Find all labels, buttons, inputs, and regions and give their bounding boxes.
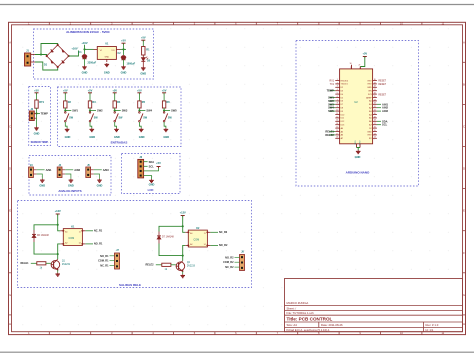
- svg-text:GND: GND: [65, 135, 71, 139]
- wire: [91, 174, 100, 179]
- svg-text:NO_R2: NO_R2: [219, 244, 228, 247]
- relay K2: [185, 227, 210, 247]
- ground: [97, 179, 103, 188]
- capacitor C2: [117, 52, 135, 66]
- wire: [84, 49, 94, 51]
- label SW4: [328, 106, 335, 110]
- note title SENSOR TEMP.: [31, 141, 49, 144]
- wire: [35, 62, 58, 70]
- svg-text:+12V: +12V: [180, 211, 186, 215]
- svg-text:17: 17: [336, 133, 338, 135]
- wire: [64, 108, 66, 111]
- svg-text:11: 11: [336, 113, 338, 115]
- connector J4: [57, 164, 62, 178]
- svg-text:SW2: SW2: [97, 109, 103, 113]
- svg-text:Date: 2011-08-26: Date: 2011-08-26: [321, 323, 343, 327]
- svg-text:21: 21: [374, 110, 376, 112]
- svg-text:26: 26: [374, 93, 376, 95]
- svg-text:9: 9: [337, 106, 338, 108]
- svg-text:E: E: [9, 209, 11, 213]
- resistor R6: [162, 101, 170, 108]
- section box sensor temp: [29, 87, 51, 146]
- svg-text:KiCad E.D.A. eeschema (5.1.10: KiCad E.D.A. eeschema (5.1.10)-1: [287, 328, 331, 332]
- label A/N1: [34, 168, 52, 172]
- svg-text:GND: GND: [355, 140, 357, 145]
- svg-text:GND: GND: [97, 184, 103, 188]
- wire: [46, 262, 51, 264]
- svg-text:GND: GND: [34, 132, 40, 136]
- svg-text:SW4: SW4: [146, 109, 152, 113]
- svg-text:Title: PCB CONTROL: Title: PCB CONTROL: [287, 317, 333, 322]
- svg-text:D7 1N4148: D7 1N4148: [162, 237, 174, 239]
- svg-text:14: 14: [336, 123, 338, 125]
- connector J5: [86, 164, 91, 178]
- svg-text:2N2219: 2N2219: [187, 266, 196, 268]
- svg-text:Size: A4: Size: A4: [287, 323, 298, 327]
- svg-text:14: 14: [204, 244, 206, 246]
- svg-text:12: 12: [336, 116, 338, 118]
- wire: [164, 122, 166, 128]
- label SW1: [65, 109, 78, 113]
- ground: [55, 273, 60, 277]
- svg-text:H: H: [463, 322, 465, 326]
- svg-text:NO_R1: NO_R1: [100, 255, 109, 258]
- svg-text:GND: GND: [139, 135, 145, 139]
- svg-text:B: B: [463, 82, 465, 86]
- switch SW4: [139, 112, 148, 122]
- svg-text:+5V: +5V: [137, 88, 142, 92]
- svg-text:A2: A2: [190, 243, 192, 246]
- svg-text:A/N2: A/N2: [382, 106, 388, 110]
- ground: [82, 66, 88, 75]
- wire: [182, 272, 184, 275]
- global label RESET: [378, 84, 386, 86]
- svg-text:GND: GND: [82, 71, 88, 75]
- resistor R1: [142, 47, 151, 56]
- svg-text:COM: COM: [194, 239, 200, 242]
- wire: [62, 174, 71, 179]
- svg-text:SCL: SCL: [149, 164, 155, 168]
- svg-text:+5V: +5V: [141, 36, 146, 40]
- wire: [31, 55, 35, 63]
- svg-text:SALIDAS RELE: SALIDAS RELE: [119, 283, 141, 287]
- wire: [57, 270, 59, 273]
- wire: [41, 44, 58, 55]
- resistor R4: [113, 101, 121, 108]
- wire: [159, 226, 183, 231]
- svg-text:RXD/D0: RXD/D0: [341, 80, 349, 82]
- svg-text:RESET: RESET: [378, 94, 386, 96]
- resistor R5: [138, 101, 146, 108]
- svg-text:+16V: +16V: [71, 47, 77, 51]
- wire: [121, 49, 127, 51]
- svg-text:File: TUTORIAL 1.sch: File: TUTORIAL 1.sch: [287, 311, 315, 315]
- wire: [90, 122, 92, 128]
- svg-text:GND: GND: [355, 155, 361, 159]
- svg-text:E: E: [463, 209, 465, 213]
- svg-text:8: 8: [337, 103, 338, 105]
- ground: [121, 66, 127, 75]
- power +5V: [121, 39, 126, 50]
- wire: [139, 108, 141, 111]
- power +5V: [162, 88, 167, 101]
- svg-text:3: 3: [337, 86, 338, 88]
- svg-text:GND: GND: [140, 72, 146, 76]
- svg-text:SW1: SW1: [328, 96, 334, 100]
- connector J7: [115, 249, 120, 269]
- svg-text:AREF: AREF: [366, 96, 372, 99]
- svg-text:D: D: [463, 167, 465, 171]
- global label RESET: [378, 94, 386, 96]
- svg-text:ARDUINO NANO: ARDUINO NANO: [346, 170, 370, 174]
- label SW2: [90, 109, 103, 113]
- svg-text:30: 30: [374, 79, 376, 81]
- wire: [35, 54, 47, 56]
- svg-text:17: 17: [374, 123, 376, 125]
- label NC_R1: [85, 229, 102, 232]
- svg-text:LCD: LCD: [148, 188, 154, 192]
- svg-text:TEMP: TEMP: [41, 112, 48, 116]
- label A/N1: [377, 102, 389, 106]
- svg-text:+12V: +12V: [55, 209, 61, 213]
- capacitor C1: [78, 51, 96, 65]
- IC U2 pins: [335, 79, 377, 140]
- label RELE1: [21, 262, 37, 265]
- svg-text:NC_R1: NC_R1: [94, 229, 103, 232]
- svg-text:13: 13: [336, 120, 338, 122]
- note title ANALOG INPUTS: [58, 189, 81, 193]
- title block frame: [285, 279, 463, 332]
- svg-text:TEMP: TEMP: [327, 89, 334, 93]
- svg-text:VIN: VIN: [368, 91, 372, 93]
- svg-text:22: 22: [374, 106, 376, 108]
- svg-text:GND: GND: [68, 184, 74, 188]
- ground: [139, 128, 145, 139]
- wire: [36, 108, 38, 114]
- svg-text:GND: GND: [367, 131, 372, 133]
- regulator U1: [94, 43, 121, 63]
- svg-text:28: 28: [374, 86, 376, 88]
- label SW1: [328, 96, 335, 100]
- wire: [58, 244, 61, 259]
- svg-text:SW5: SW5: [328, 109, 334, 113]
- resistor RT1: [35, 100, 45, 108]
- svg-text:GND: GND: [360, 140, 362, 145]
- svg-text:A/N3: A/N3: [382, 109, 388, 113]
- wire: [144, 176, 152, 180]
- svg-text:RELE2: RELE2: [146, 264, 155, 267]
- wire: [115, 122, 117, 128]
- label A/N3: [377, 109, 389, 113]
- svg-text:U2: U2: [354, 100, 358, 104]
- svg-text:A/N2: A/N2: [74, 168, 80, 172]
- transistor Q2: [176, 261, 196, 272]
- svg-text:TXD/D1: TXD/D1: [341, 84, 349, 86]
- svg-text:RELE1: RELE1: [21, 262, 30, 265]
- svg-text:A1: A1: [65, 231, 67, 234]
- note title ENTRADAS: [111, 141, 128, 145]
- label NC_R1: [100, 265, 114, 268]
- ground: [104, 63, 110, 75]
- switch SW3: [114, 112, 123, 122]
- svg-text:2200uF: 2200uF: [88, 62, 97, 65]
- svg-text:+5V: +5V: [63, 88, 68, 92]
- svg-text:SENSOR TEMP.: SENSOR TEMP.: [31, 141, 49, 144]
- svg-text:MARCO ZUNIGA: MARCO ZUNIGA: [287, 301, 309, 305]
- power +12V: [55, 209, 61, 226]
- svg-text:VO: VO: [111, 50, 114, 52]
- svg-text:24: 24: [374, 99, 376, 101]
- wire: [58, 225, 61, 231]
- svg-text:GND: GND: [39, 184, 45, 188]
- label SW3: [328, 102, 335, 106]
- svg-text:20: 20: [374, 113, 376, 115]
- svg-text:GND: GND: [114, 135, 120, 139]
- resistor R8: [162, 263, 171, 271]
- label SW4: [139, 109, 152, 113]
- svg-text:16: 16: [374, 127, 376, 129]
- svg-text:SW3: SW3: [122, 109, 128, 113]
- global label RESET: [378, 81, 386, 83]
- ground: [89, 128, 95, 139]
- connector J8: [240, 251, 245, 271]
- label NO_R2: [225, 256, 239, 259]
- resistor R7: [37, 262, 46, 270]
- wire: [142, 55, 144, 58]
- svg-text:RELE1: RELE1: [325, 130, 334, 134]
- power +5V: [141, 36, 146, 47]
- diode D6: [32, 230, 49, 242]
- wire: [123, 60, 125, 66]
- svg-text:GND: GND: [163, 135, 169, 139]
- IC bottom pins: [355, 140, 362, 148]
- svg-text:SW4: SW4: [328, 106, 334, 110]
- wire: [139, 122, 141, 128]
- svg-text:+5V: +5V: [112, 88, 117, 92]
- svg-text:D: D: [9, 167, 11, 171]
- svg-text:2N2219: 2N2219: [62, 264, 71, 266]
- label SW5: [328, 109, 335, 113]
- power +5V: [112, 88, 117, 101]
- connector J1: [25, 50, 31, 66]
- svg-text:7: 7: [337, 99, 338, 101]
- ground: [163, 128, 169, 139]
- section box entradas: [58, 87, 182, 147]
- svg-text:SDA: SDA: [149, 160, 155, 164]
- section box salidas rele: [18, 201, 252, 288]
- svg-text:RELE2: RELE2: [325, 133, 334, 137]
- ground: [140, 67, 146, 76]
- ground: [180, 274, 185, 278]
- svg-text:C: C: [463, 125, 465, 129]
- note title ARDUINO NANO: [346, 170, 370, 174]
- svg-text:SW3: SW3: [328, 102, 334, 106]
- wire: [163, 108, 165, 111]
- svg-text:+5V: +5V: [156, 161, 161, 165]
- label SCL: [377, 123, 388, 127]
- svg-text:A/N1: A/N1: [46, 168, 52, 172]
- label SW3: [115, 109, 128, 113]
- svg-text:15: 15: [336, 127, 338, 129]
- svg-text:SW5: SW5: [171, 109, 177, 113]
- svg-text:ALIMENTACION 24VAC - 5VDC: ALIMENTACION 24VAC - 5VDC: [66, 30, 111, 34]
- label A/N2: [377, 106, 389, 110]
- svg-text:Sheet: /: Sheet: /: [287, 306, 297, 310]
- svg-text:SW2: SW2: [328, 99, 334, 103]
- svg-text:+16V: +16V: [81, 41, 87, 45]
- svg-text:ANALOG INPUTS: ANALOG INPUTS: [58, 189, 81, 193]
- power +5V: [88, 88, 93, 101]
- svg-text:13: 13: [374, 137, 376, 139]
- wire: [69, 51, 79, 57]
- label RELE1: [325, 130, 335, 134]
- wire: [65, 122, 67, 128]
- title block text: [287, 301, 439, 332]
- svg-text:16: 16: [336, 130, 338, 132]
- connector J2: [29, 108, 36, 121]
- svg-text:H: H: [9, 322, 11, 326]
- svg-text:2: 2: [337, 82, 338, 84]
- wire: [84, 59, 86, 66]
- wire: [34, 242, 59, 255]
- svg-text:NC_R2: NC_R2: [225, 266, 234, 269]
- svg-text:NO_R1: NO_R1: [94, 243, 103, 246]
- svg-text:RESET: RESET: [378, 84, 386, 86]
- svg-text:30: 30: [350, 63, 352, 65]
- power +12V: [180, 211, 186, 228]
- switch SW5: [163, 112, 172, 122]
- bridge rectifier D1: [44, 44, 70, 68]
- global label TX1: [330, 84, 335, 86]
- switch SW2: [89, 112, 98, 122]
- svg-text:NC_R1: NC_R1: [100, 265, 109, 268]
- resistor R3: [88, 101, 96, 108]
- ground: [149, 179, 155, 186]
- wire: [34, 174, 43, 179]
- label NC_R2: [210, 231, 227, 234]
- label TEMP: [37, 112, 49, 116]
- svg-text:+5V: +5V: [362, 52, 367, 56]
- label SW2: [328, 99, 335, 103]
- svg-text:23: 23: [374, 103, 376, 105]
- ground: [34, 127, 40, 136]
- note title LCD: [148, 188, 154, 192]
- label NO_R2: [210, 244, 228, 247]
- wire: [89, 108, 91, 111]
- section box alimentacion: [34, 29, 154, 79]
- svg-text:11: 11: [204, 233, 206, 235]
- transistor Q1: [51, 259, 71, 270]
- svg-text:COM_R1: COM_R1: [98, 260, 109, 263]
- label NC_R2: [225, 266, 239, 269]
- svg-text:1: 1: [337, 79, 338, 81]
- svg-text:4: 4: [337, 89, 338, 91]
- wire: [159, 244, 184, 257]
- connector J6: [138, 156, 144, 178]
- svg-text:NC_R2: NC_R2: [219, 231, 228, 234]
- wire: [183, 226, 186, 232]
- svg-text:GND: GND: [367, 87, 372, 89]
- svg-text:27: 27: [374, 89, 376, 91]
- svg-text:+5V: +5V: [121, 39, 126, 43]
- label RELE2: [146, 264, 162, 267]
- svg-text:GND: GND: [105, 57, 110, 59]
- power +5V: [137, 88, 142, 101]
- label SDA: [144, 160, 155, 164]
- ground: [65, 128, 71, 139]
- svg-text:5: 5: [337, 93, 338, 95]
- diode D7: [157, 232, 174, 244]
- svg-text:Id: 1/1: Id: 1/1: [426, 328, 434, 332]
- connector J3: [29, 164, 34, 178]
- svg-text:+5V: +5V: [88, 88, 93, 92]
- svg-text:+5V: +5V: [162, 88, 167, 92]
- wire: [183, 245, 186, 260]
- svg-text:+5V: +5V: [34, 88, 39, 92]
- svg-text:GND: GND: [149, 182, 155, 186]
- label RELE2: [325, 133, 335, 137]
- LED D5: [141, 57, 150, 63]
- svg-text:B: B: [9, 82, 11, 86]
- label SDA: [377, 119, 388, 123]
- svg-text:1000uF: 1000uF: [127, 63, 136, 66]
- svg-text:TX1: TX1: [330, 84, 335, 86]
- power +5V: [63, 88, 68, 101]
- wire: [34, 225, 58, 230]
- svg-text:A: A: [9, 40, 11, 44]
- IC top pins: [350, 63, 362, 69]
- svg-text:COM_R2: COM_R2: [223, 261, 234, 264]
- label COM_R1: [98, 260, 114, 263]
- svg-text:D6 1N4148: D6 1N4148: [37, 235, 49, 237]
- svg-text:SW1: SW1: [72, 109, 78, 113]
- label NO_R1: [85, 243, 103, 246]
- svg-text:GND: GND: [104, 71, 110, 75]
- label TEMP: [327, 89, 336, 93]
- resistor R2: [64, 101, 72, 108]
- wire: [84, 49, 86, 54]
- section box analog inputs: [29, 156, 111, 196]
- svg-text:18: 18: [374, 120, 376, 122]
- wire: [123, 49, 125, 55]
- label +16V: [81, 41, 87, 49]
- switch SW1: [65, 112, 74, 122]
- wire: [114, 108, 116, 111]
- svg-text:29: 29: [374, 82, 376, 84]
- wire: [142, 61, 144, 66]
- label +16V: [71, 47, 77, 51]
- label SCL: [144, 164, 155, 168]
- svg-text:ENTRADAS: ENTRADAS: [111, 141, 128, 145]
- svg-text:C: C: [9, 125, 11, 129]
- power +5V: [360, 52, 367, 67]
- note title SALIDAS RELE: [119, 283, 141, 287]
- svg-text:6: 6: [337, 96, 338, 98]
- svg-text:14: 14: [374, 133, 376, 135]
- svg-text:Rev: # 1.0: Rev: # 1.0: [426, 323, 439, 327]
- svg-text:15: 15: [374, 130, 376, 132]
- svg-text:A1: A1: [190, 232, 192, 235]
- section box lcd: [122, 154, 181, 194]
- svg-text:27: 27: [358, 65, 360, 67]
- wire: [171, 264, 176, 266]
- svg-text:11: 11: [79, 232, 81, 234]
- svg-text:A/N3: A/N3: [103, 168, 109, 172]
- svg-text:A/N1: A/N1: [382, 102, 388, 106]
- label SW5: [164, 109, 177, 113]
- svg-text:A: A: [463, 40, 465, 44]
- svg-text:RESET: RESET: [378, 81, 386, 83]
